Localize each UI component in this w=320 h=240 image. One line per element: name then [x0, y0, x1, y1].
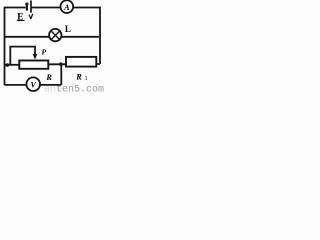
svg-text:V: V: [31, 80, 37, 89]
svg-text:R: R: [75, 73, 82, 82]
svg-text:A: A: [63, 3, 70, 12]
svg-text:R: R: [45, 73, 52, 82]
svg-text:ten5.com: ten5.com: [56, 84, 104, 92]
svg-text:L: L: [65, 24, 71, 34]
svg-text:P: P: [42, 48, 47, 57]
svg-text:1: 1: [85, 75, 88, 82]
